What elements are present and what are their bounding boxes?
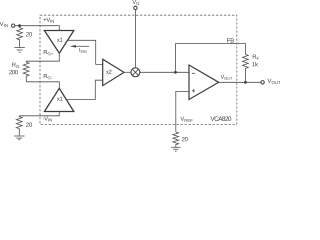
label RF [253,55,259,60]
label 1k [252,62,258,66]
label x1 top buffer [57,38,62,42]
label 20 VREF [182,137,188,141]
label ISIG [79,48,86,53]
ground (VREF) [171,146,180,148]
junction output RF [244,81,247,84]
label VIN [0,22,8,27]
op-amp U1 x1 top buffer [44,31,73,54]
label VG [132,0,139,5]
label RG- pin [44,74,52,79]
op-amp U4 output amplifier [189,65,219,100]
wire x2 to multiplier [124,71,131,73]
wire output to VOUT [219,81,261,83]
label -VIN pin [43,117,52,122]
node VIN terminal [12,24,15,27]
resistor 20 (VREF) [173,132,179,147]
junction VIN [18,24,21,27]
label VCA820 [210,116,231,121]
wire buffer2 to x2 bottom input [66,80,102,99]
junction FB node [174,71,177,74]
resistor RG 200 [23,62,29,82]
resistor 20 (bottom-left) [16,116,22,136]
ground (bottom-left) [14,135,24,137]
wire buffer1 output to RG+ [26,53,59,62]
label x2 stage [106,70,111,74]
label x1 bottom buffer [57,97,62,101]
node VOUT terminal [261,81,264,84]
label VREF pin [180,117,192,122]
plus sign U4 [192,90,195,92]
node VG terminal [134,6,137,9]
label RG+ pin [44,50,53,55]
arrow ISIG [74,45,90,47]
wire -VIN to buffer2 input [19,112,59,116]
label 20 bottom-left [26,123,32,127]
wire multiplier to op-amp inverting input [140,71,189,73]
label +VIN pin [43,18,54,23]
wire VIN to buffer input [15,26,60,31]
label FB pin [227,38,234,42]
resistor RF 1k [243,54,249,82]
resistor 20 (top-left) [17,27,23,47]
wire buffer1 to x2 top input [68,40,103,64]
label 200 [9,70,18,74]
wire RG- to buffer2 output [26,82,59,89]
label VOUT external [267,79,280,84]
wire FB feedback [176,44,246,73]
dashed box VCA820 outline [40,15,237,124]
ground (top-left) [14,47,24,49]
op-amp U3 x2 stage [103,59,124,85]
op-amp U2 x1 bottom buffer [44,88,73,111]
minus sign U4 [192,72,195,74]
multiplier M1 [131,68,140,77]
label 20 top-left [26,32,32,36]
wire non-inverting input to VREF [176,91,189,131]
label VOUT internal [221,75,233,80]
wire VG to multiplier [134,10,136,69]
label RG [12,63,19,68]
